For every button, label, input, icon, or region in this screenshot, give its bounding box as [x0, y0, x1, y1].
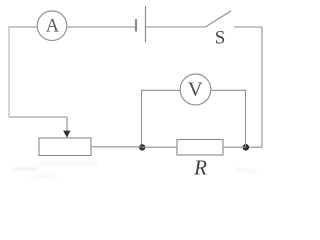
wire left node to resistor [142, 146, 178, 148]
voltmeter V [180, 74, 211, 105]
node left junction [139, 144, 145, 150]
wire ammeter to battery [67, 26, 135, 28]
rheostat (potentiometer) [39, 117, 91, 156]
wire bottom-left horizontal [9, 116, 67, 118]
wire switch to top-right corner [234, 26, 262, 28]
wire top-left horizontal [9, 26, 38, 28]
battery [136, 6, 146, 43]
wire voltmeter right branch [211, 90, 246, 147]
wire left vertical [8, 27, 10, 117]
ammeter A [37, 11, 67, 41]
node right junction [243, 144, 250, 151]
switch S [205, 11, 231, 49]
wire voltmeter left branch [142, 90, 181, 147]
wire right vertical [261, 27, 263, 147]
resistor R [177, 140, 223, 180]
wire rheostat to left node [91, 146, 142, 148]
wire resistor to right node [223, 146, 246, 148]
svg-text:V: V [188, 78, 203, 100]
svg-text:S: S [215, 28, 226, 49]
wire bottom-right segment [246, 146, 263, 148]
svg-text:A: A [46, 17, 60, 37]
svg-text:R: R [193, 155, 207, 179]
wire battery to switch [146, 26, 205, 28]
